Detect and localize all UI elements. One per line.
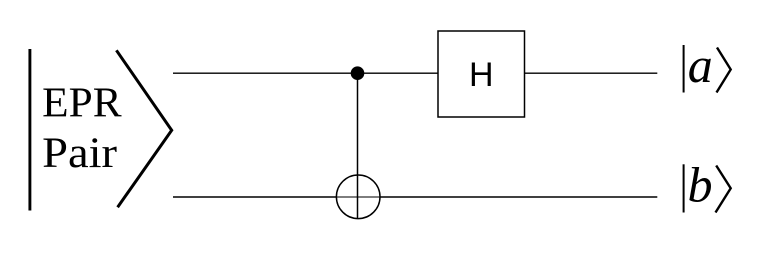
EPR pair source: right angle bracket — [116, 50, 171, 207]
svg-text:EPR: EPR — [42, 80, 121, 126]
output label |b> : angle bracket — [716, 166, 731, 213]
wire: qubit b, from EPR source to output label — [173, 196, 657, 198]
svg-text:H: H — [469, 56, 494, 94]
output label |a> : angle bracket — [717, 48, 731, 93]
svg-text:a: a — [688, 37, 713, 93]
wire: grey segment of qubit b wire inside CNOT target circle — [337, 196, 380, 198]
svg-text:Pair: Pair — [42, 130, 117, 177]
EPR pair source: left ket bar — [28, 49, 31, 211]
CNOT control dot on qubit a — [351, 66, 365, 80]
output label |a> : ket bar — [683, 45, 685, 93]
output label |b> : ket bar — [683, 164, 685, 212]
CNOT target circle on qubit b — [336, 175, 380, 219]
wire: qubit a, segment from EPR source to H gate (through control) — [173, 72, 438, 74]
wire: qubit a, segment from H gate to output label — [525, 72, 658, 74]
H gate box — [438, 31, 525, 117]
svg-text:b: b — [688, 156, 713, 212]
wire: vertical connector from control to CNOT target — [357, 73, 359, 219]
